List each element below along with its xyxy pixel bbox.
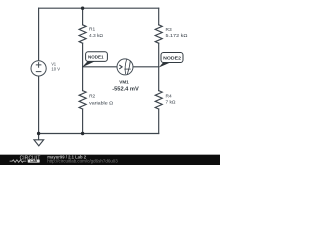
svg-text:variable Ω: variable Ω xyxy=(89,100,113,106)
svg-text:NODE2: NODE2 xyxy=(163,56,181,62)
label VM1 value xyxy=(112,80,139,93)
wire center rung right xyxy=(133,66,159,68)
label V1 value xyxy=(51,61,60,72)
voltage source V1 xyxy=(31,61,46,76)
svg-text:R1: R1 xyxy=(89,27,95,33)
wire bottom rail xyxy=(39,133,159,135)
resistor R1 xyxy=(79,25,86,43)
label R2 value xyxy=(89,94,113,107)
svg-text:R2: R2 xyxy=(89,94,95,100)
resistor R2 xyxy=(79,91,86,109)
svg-text:10 V: 10 V xyxy=(51,67,60,73)
svg-text:R3: R3 xyxy=(166,27,172,33)
node junction top tee xyxy=(81,7,84,10)
svg-text:4.3 kΩ: 4.3 kΩ xyxy=(89,33,103,39)
footer bar xyxy=(0,154,220,165)
label R3 value xyxy=(166,27,188,39)
wire left branch lower xyxy=(82,109,84,134)
svg-text:-552.4 mV: -552.4 mV xyxy=(112,87,139,93)
svg-text:LAB: LAB xyxy=(30,159,37,163)
node NODE2 flag xyxy=(159,53,183,68)
wire center rung left xyxy=(83,66,117,68)
footer logo resistor glyph xyxy=(10,160,27,163)
wire left branch middle xyxy=(82,43,84,90)
node junction bottom tee xyxy=(81,132,84,135)
footer CircuitLab logo text xyxy=(10,155,41,163)
svg-text:NODE1: NODE1 xyxy=(88,55,104,61)
wire top rail xyxy=(39,7,159,9)
svg-text:http://circuitlab.com/c/gd6sh7: http://circuitlab.com/c/gd6sh7d6u03 xyxy=(47,158,118,163)
node NODE1 flag xyxy=(82,52,107,68)
ground stub xyxy=(38,134,40,140)
label R1 value xyxy=(89,27,103,40)
resistor R4 xyxy=(155,91,162,109)
ground xyxy=(34,140,44,146)
svg-text:5.172 kΩ: 5.172 kΩ xyxy=(166,33,188,39)
wire right branch upper xyxy=(158,8,160,25)
svg-text:R4: R4 xyxy=(166,94,172,100)
footer logo LAB box xyxy=(28,160,40,163)
wire left rail lower xyxy=(38,76,40,134)
svg-text:7 kΩ: 7 kΩ xyxy=(166,100,176,106)
wire right branch lower xyxy=(158,109,160,134)
svg-text:VM1: VM1 xyxy=(119,80,129,85)
voltmeter VM1 xyxy=(117,59,133,75)
svg-text:V1: V1 xyxy=(51,61,56,67)
wire left rail upper xyxy=(38,8,40,61)
label R4 value xyxy=(166,94,176,106)
wire right branch middle xyxy=(158,43,160,90)
node junction ground tee xyxy=(37,132,40,135)
resistor R3 xyxy=(155,25,162,43)
wire left branch upper xyxy=(82,8,84,25)
